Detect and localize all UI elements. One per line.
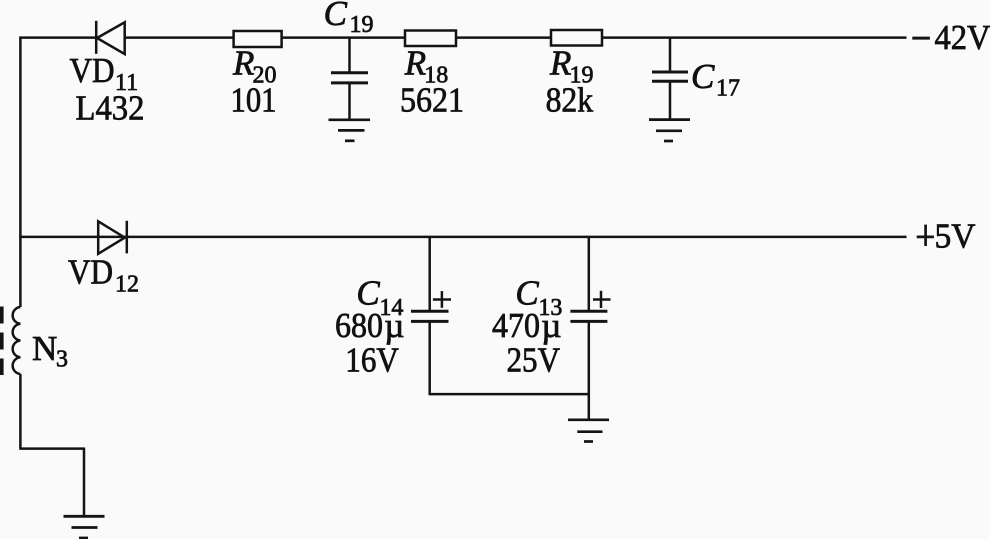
svg-text:5621: 5621 xyxy=(400,80,464,119)
svg-text:42V: 42V xyxy=(935,18,990,57)
svg-text:16V: 16V xyxy=(345,341,399,380)
ground under C13 xyxy=(568,420,609,442)
svg-text:19: 19 xyxy=(350,12,374,38)
svg-text:C: C xyxy=(324,0,348,33)
svg-text:R: R xyxy=(232,44,254,83)
wire top rail right segment to -42V xyxy=(602,36,907,39)
capacitor C14 polarity plus xyxy=(433,291,451,308)
resistor R19 body xyxy=(551,30,602,46)
svg-text:82k: 82k xyxy=(546,80,594,119)
ground bottom left xyxy=(64,516,105,538)
wire C13 stem upper xyxy=(588,237,591,311)
wire C14 stem upper xyxy=(428,237,431,311)
wire top rail between VD11 and R20 xyxy=(125,36,234,39)
label +5V plus stroke xyxy=(917,236,934,239)
svg-text:VD: VD xyxy=(68,253,113,292)
ground under C19 xyxy=(329,120,371,141)
svg-text:101: 101 xyxy=(231,80,277,119)
svg-text:470: 470 xyxy=(492,306,540,345)
svg-text:5V: 5V xyxy=(935,217,976,256)
svg-text:25V: 25V xyxy=(507,341,561,380)
wire mid rail left segment xyxy=(19,236,906,239)
wire C19 stem lower xyxy=(348,83,351,120)
resistor R20 body xyxy=(234,31,282,47)
diode VD11 triangle xyxy=(97,22,125,54)
wire C14 stem lower xyxy=(428,321,431,395)
svg-text:VD: VD xyxy=(70,51,115,90)
wire below winding xyxy=(19,374,22,449)
wire linking C14 and C13 bottoms xyxy=(430,393,589,396)
svg-text:R: R xyxy=(404,44,426,83)
wire top rail between R20 and R18 xyxy=(281,36,405,39)
capacitor C19 plates xyxy=(331,73,368,83)
svg-text:C: C xyxy=(691,57,715,96)
capacitor C13 polarity plus xyxy=(593,291,611,308)
capacitor C14 plates xyxy=(411,311,449,321)
wire left vertical from top rail down to winding xyxy=(19,37,22,308)
svg-text:3: 3 xyxy=(56,347,68,373)
wire bottom horizontal xyxy=(19,447,84,450)
resistor R18 body xyxy=(405,31,456,47)
wire C19 stem upper xyxy=(348,38,351,73)
svg-text:R: R xyxy=(549,44,571,83)
ground under C17 xyxy=(649,120,690,141)
capacitor C13 plates xyxy=(570,311,607,321)
svg-text:680: 680 xyxy=(335,306,383,345)
wire top rail between R18 and R19 xyxy=(456,36,551,39)
wire C13 stem lower to ground xyxy=(588,321,591,419)
svg-text:L432: L432 xyxy=(76,89,145,128)
capacitor C17 plates xyxy=(652,72,688,81)
inductor winding N3 xyxy=(13,307,21,374)
svg-text:N: N xyxy=(32,329,57,368)
transformer core dashed line xyxy=(0,307,4,376)
svg-text:µ: µ xyxy=(541,306,561,345)
diode VD12 triangle xyxy=(98,221,125,254)
svg-text:12: 12 xyxy=(115,272,139,298)
svg-text:µ: µ xyxy=(384,306,404,345)
diode VD11 cathode bar xyxy=(95,21,98,54)
wire C17 stem lower xyxy=(669,81,672,119)
svg-text:17: 17 xyxy=(716,76,740,102)
wire top rail left segment xyxy=(19,36,96,39)
wire C17 stem upper xyxy=(669,38,672,72)
wire down to bottom ground xyxy=(83,448,86,517)
label -42V minus stroke xyxy=(912,37,930,40)
diode VD12 cathode bar xyxy=(126,221,129,254)
